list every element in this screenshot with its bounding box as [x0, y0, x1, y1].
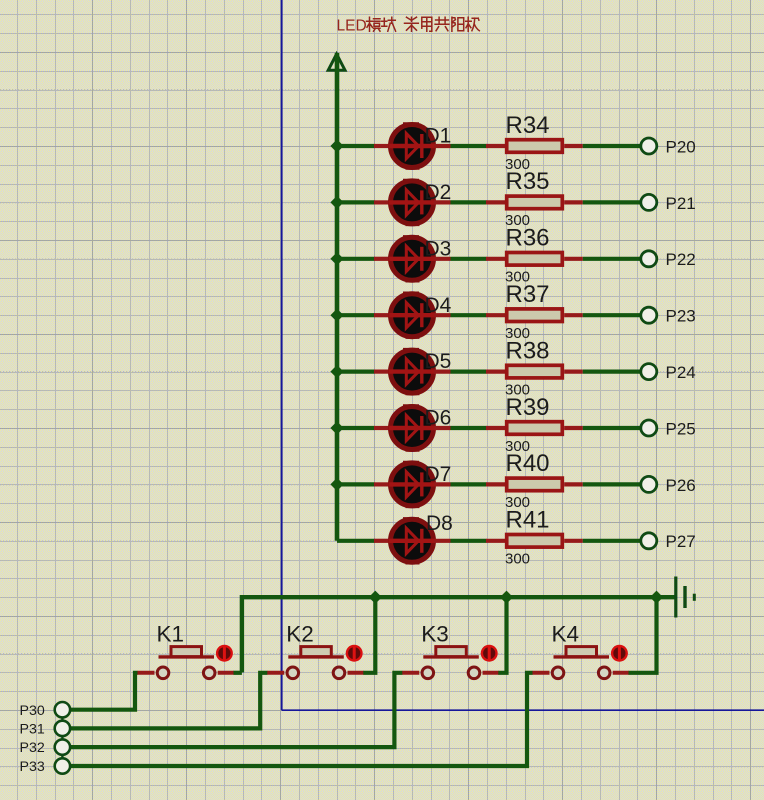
wire rail to LED D5	[337, 370, 375, 374]
terminal pin stack stub	[61, 703, 63, 773]
resistor R38 left pin	[486, 370, 505, 374]
resistor R35 body, value 300	[507, 196, 563, 209]
svg-text:P27: P27	[666, 532, 696, 551]
LED D3 body	[388, 237, 435, 281]
pushbutton K3	[402, 647, 499, 679]
LED D8 right pin	[434, 539, 451, 543]
pushbutton K1	[137, 647, 234, 679]
svg-text:P23: P23	[666, 307, 696, 326]
terminal P30	[55, 702, 70, 717]
LED D3 left pin	[374, 257, 390, 261]
svg-text:R34: R34	[506, 112, 550, 139]
svg-text:P31: P31	[20, 722, 45, 738]
terminal P25	[641, 420, 657, 436]
LED D4 body	[388, 293, 435, 337]
pushbutton K3 red actuator	[481, 645, 498, 662]
pushbutton K4 red actuator	[611, 645, 628, 662]
wire R41 to terminal P27	[583, 539, 640, 543]
resistor R41 right pin	[564, 539, 583, 543]
svg-text:K2: K2	[286, 621, 314, 646]
terminal P21	[641, 194, 657, 210]
terminal P32	[55, 739, 70, 754]
node row 6 junction / corner	[330, 421, 343, 434]
resistor R40 left pin	[486, 482, 505, 486]
node row 7 junction / corner	[330, 478, 343, 491]
resistor R37 right pin	[564, 313, 583, 317]
pushbutton K4	[532, 647, 629, 679]
pushbutton K2 red actuator	[346, 645, 363, 662]
wire rail to LED D6	[337, 426, 375, 430]
svg-text:R35: R35	[506, 168, 550, 195]
pushbutton K2	[267, 647, 364, 679]
LED D5 body	[388, 350, 435, 394]
svg-text:P20: P20	[666, 137, 696, 156]
svg-text:P33: P33	[20, 759, 45, 775]
resistor R35 left pin	[486, 200, 505, 204]
svg-text:K1: K1	[157, 621, 185, 646]
LED D2 left pin	[374, 200, 390, 204]
wire LED to R38	[451, 370, 487, 374]
sheet border vertical blue line	[281, 0, 283, 710]
ground symbol (3 bars, pointing right)	[676, 577, 695, 618]
junction on bus	[500, 591, 513, 604]
terminal P23	[641, 307, 657, 323]
svg-text:300: 300	[505, 551, 530, 568]
wire rail to LED D2	[337, 200, 375, 204]
svg-text:R41: R41	[506, 507, 550, 534]
wire rail to LED D4	[337, 313, 375, 317]
wire R38 to terminal P24	[583, 370, 640, 374]
terminal P24	[641, 364, 657, 380]
svg-text:K4: K4	[552, 621, 580, 646]
LED D6 right pin	[434, 426, 451, 430]
wire LED to R34	[451, 144, 487, 148]
svg-text:P24: P24	[666, 363, 696, 382]
junction on bus	[650, 591, 663, 604]
node row 3 junction / corner	[330, 252, 343, 265]
wire LED to R41	[451, 539, 487, 543]
LED D7 body	[388, 462, 435, 506]
LED D2 body	[388, 180, 435, 224]
wire rail to LED D3	[337, 257, 375, 261]
svg-text:R37: R37	[506, 281, 550, 308]
wire LED to R36	[451, 257, 487, 261]
LED D7 right pin	[434, 482, 451, 486]
resistor R36 body, value 300	[507, 253, 563, 266]
resistor R41 body, value 300	[507, 535, 563, 548]
LED D8 left pin	[374, 539, 390, 543]
resistor R36 left pin	[486, 257, 505, 261]
resistor R34 right pin	[564, 144, 583, 148]
svg-text:P32: P32	[20, 740, 45, 756]
terminal P31	[55, 721, 70, 736]
wire LED to R40	[451, 482, 487, 486]
wire K4 left terminal down to P33	[71, 673, 533, 766]
wire R34 to terminal P20	[583, 144, 640, 148]
svg-text:R36: R36	[506, 225, 550, 252]
resistor R38 right pin	[564, 370, 583, 374]
wire LED to R39	[451, 426, 487, 430]
wire K1 left terminal down to P30	[71, 673, 138, 710]
resistor R39 left pin	[486, 426, 505, 430]
LED D2 right pin	[434, 200, 451, 204]
wire LED to R35	[451, 200, 487, 204]
resistor R37 left pin	[486, 313, 505, 317]
resistor R36 right pin	[564, 257, 583, 261]
wire K1 right terminal to bus corner	[234, 671, 242, 675]
node row 4 junction / corner	[330, 309, 343, 322]
wire rail to LED D7	[337, 482, 375, 486]
wire: vertical power rail	[335, 53, 340, 541]
wire R35 to terminal P21	[583, 200, 640, 204]
node row 2 junction / corner	[330, 196, 343, 209]
LED D1 body	[388, 124, 435, 168]
svg-text:P26: P26	[666, 476, 696, 495]
svg-text:R39: R39	[506, 394, 550, 421]
pushbutton K1 red actuator	[216, 645, 233, 662]
wire K3 right terminal up to bus	[498, 599, 506, 673]
LED D4 left pin	[374, 313, 390, 317]
svg-text:P30: P30	[20, 703, 45, 719]
LED D5 left pin	[374, 370, 390, 374]
wire: ground bus horizontal	[242, 597, 675, 672]
LED D5 right pin	[434, 370, 451, 374]
terminal P26	[641, 476, 657, 492]
resistor R40 right pin	[564, 482, 583, 486]
svg-text:P25: P25	[666, 419, 696, 438]
wire K2 right terminal up to bus	[363, 599, 375, 673]
LED D6 body	[388, 406, 435, 450]
wire rail to LED D1	[337, 144, 375, 148]
resistor R37 body, value 300	[507, 309, 563, 322]
resistor R34 left pin	[486, 144, 505, 148]
resistor R39 right pin	[564, 426, 583, 430]
node row 5 junction / corner	[330, 365, 343, 378]
wire R39 to terminal P25	[583, 426, 640, 430]
svg-text:R40: R40	[506, 450, 550, 477]
LED D3 right pin	[434, 257, 451, 261]
wire K2 left terminal down to P31	[71, 673, 268, 729]
wire R37 to terminal P23	[583, 313, 640, 317]
resistor R35 right pin	[564, 200, 583, 204]
wire rail to LED D8	[337, 539, 375, 543]
wire K4 right terminal up to bus	[629, 599, 657, 673]
sheet border horizontal blue line	[282, 709, 764, 711]
terminal P33	[55, 758, 70, 773]
wire LED to R37	[451, 313, 487, 317]
resistor R34 body, value 300	[507, 140, 563, 153]
LED D1 right pin	[434, 144, 451, 148]
resistor R38 body, value 300	[507, 365, 563, 378]
svg-text:P21: P21	[666, 194, 696, 213]
resistor R39 body, value 300	[507, 422, 563, 435]
LED D6 left pin	[374, 426, 390, 430]
junction on bus	[369, 591, 382, 604]
LED D7 left pin	[374, 482, 390, 486]
svg-text:P22: P22	[666, 250, 696, 269]
LED D1 left pin	[374, 144, 390, 148]
wire K3 left terminal down to P32	[71, 673, 403, 747]
node row 1 junction / corner	[330, 139, 343, 152]
svg-text:LED: LED	[337, 18, 367, 35]
svg-text:D8: D8	[426, 512, 453, 535]
terminal P20	[641, 138, 657, 154]
wire R40 to terminal P26	[583, 482, 640, 486]
LED D8 body	[388, 519, 435, 563]
resistor R41 left pin	[486, 539, 505, 543]
svg-text:R38: R38	[506, 337, 550, 364]
svg-text:K3: K3	[421, 621, 449, 646]
power rail arrow symbol	[328, 54, 345, 70]
terminal P22	[641, 251, 657, 267]
resistor R40 body, value 300	[507, 478, 563, 491]
wire R36 to terminal P22	[583, 257, 640, 261]
terminal P27	[641, 533, 657, 549]
title text: LED模块 采用共阳极	[337, 17, 480, 34]
LED D4 right pin	[434, 313, 451, 317]
